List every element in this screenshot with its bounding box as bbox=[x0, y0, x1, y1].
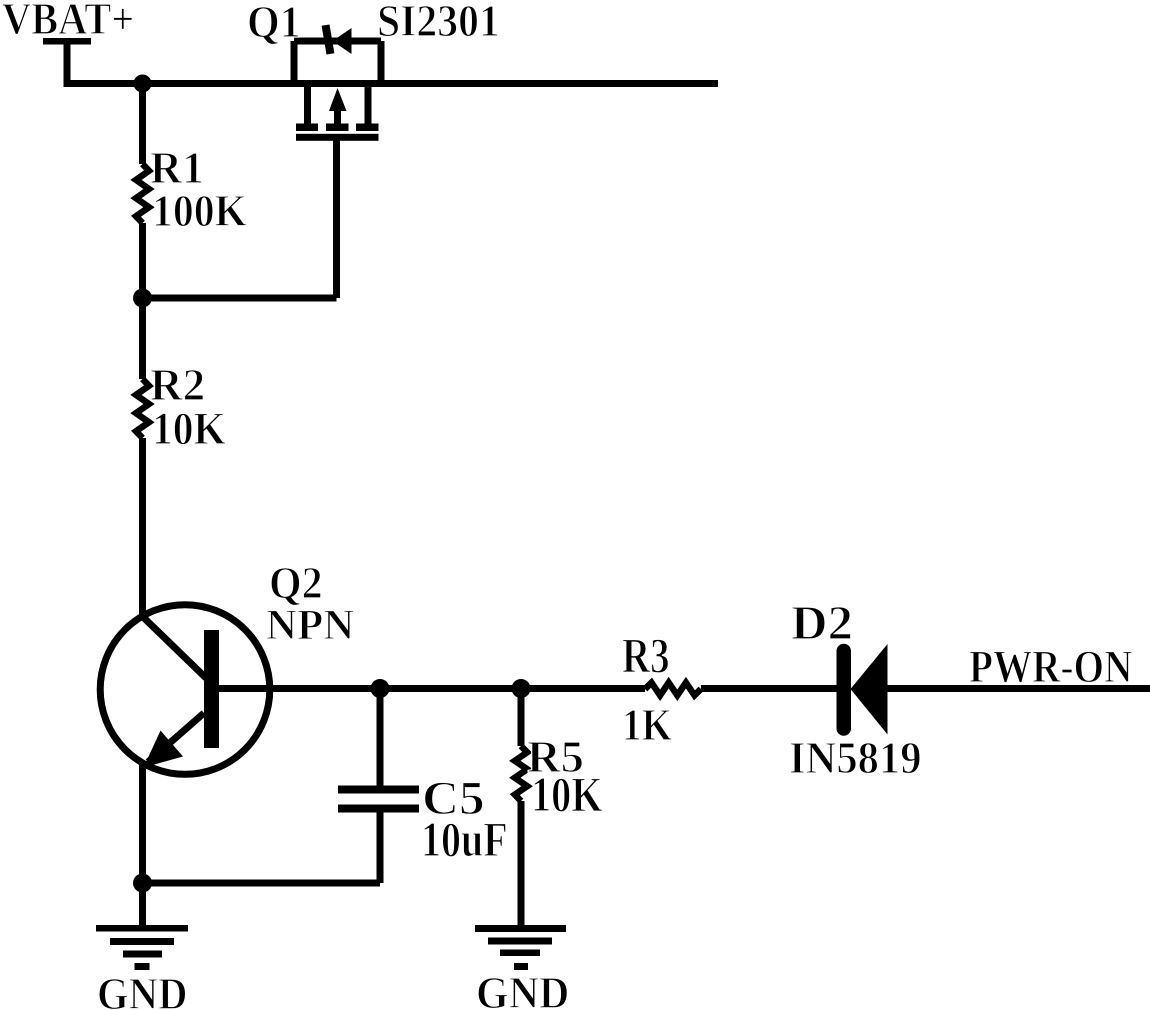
Q2 emitter arrowhead bbox=[144, 731, 184, 768]
svg-text:GND: GND bbox=[97, 969, 188, 1010]
svg-text:Q2: Q2 bbox=[269, 558, 323, 608]
wire C5 top lead bbox=[377, 689, 384, 787]
wire R1 to node A bbox=[139, 223, 146, 298]
wire node A to Q1 gate bbox=[139, 295, 337, 302]
power symbol VBAT+ stem bbox=[64, 44, 71, 84]
svg-text:1K: 1K bbox=[622, 699, 672, 750]
wire Q2 emitter down bbox=[139, 762, 146, 883]
ground left bar3 bbox=[123, 951, 162, 958]
svg-text:10uF: 10uF bbox=[421, 811, 508, 867]
svg-text:VBAT+: VBAT+ bbox=[2, 0, 134, 44]
wire R5 bottom lead bbox=[518, 801, 525, 928]
resistor R2 bbox=[136, 379, 149, 438]
wire node A to R2 bbox=[139, 298, 146, 379]
ground left bar4 bbox=[135, 963, 150, 970]
diode D2 cathode bar bbox=[837, 651, 852, 729]
Q1 body diode loop right bbox=[378, 41, 385, 84]
junction top rail / R1 bbox=[134, 75, 152, 93]
power symbol VBAT+ bar bbox=[43, 38, 91, 45]
resistor R5 bbox=[515, 746, 527, 801]
Q1 body diode loop left bbox=[291, 41, 298, 84]
ground right bar3 bbox=[500, 950, 540, 957]
Q1 substrate arrow bbox=[329, 88, 347, 111]
wire R2 to Q2 collector bbox=[139, 438, 146, 620]
svg-text:10K: 10K bbox=[152, 403, 226, 455]
svg-text:Q1: Q1 bbox=[247, 0, 301, 47]
svg-text:R3: R3 bbox=[622, 627, 670, 683]
svg-text:100K: 100K bbox=[152, 186, 247, 236]
Q1 substrate arrow stem bbox=[334, 108, 341, 124]
svg-text:NPN: NPN bbox=[266, 602, 354, 649]
Q1 channel bar middle bbox=[326, 124, 349, 132]
Q1 body diode triangle bbox=[333, 28, 352, 54]
wire emitter node to ground bbox=[139, 883, 146, 928]
Q1 channel bar source bbox=[296, 124, 318, 132]
node A junction R1/R2/gate bbox=[133, 289, 152, 308]
Q1 channel bar drain bbox=[356, 124, 379, 132]
wire top rail bbox=[64, 80, 719, 87]
Q2 collector diagonal bbox=[142, 616, 206, 678]
junction base/C5 bbox=[371, 679, 390, 698]
capacitor C5 bottom plate bbox=[338, 805, 419, 813]
ground left bar1 bbox=[96, 925, 188, 932]
ground right bar1 bbox=[475, 925, 566, 932]
ground left bar2 bbox=[110, 938, 174, 945]
svg-text:SI2301: SI2301 bbox=[377, 0, 500, 46]
svg-text:10K: 10K bbox=[531, 766, 603, 822]
wire emitter node to C5 bottom bbox=[143, 880, 381, 887]
ground right bar4 bbox=[514, 963, 528, 970]
wire R3 to D2 bbox=[701, 685, 837, 692]
Q1 body diode cathode bar bbox=[322, 25, 335, 55]
Q1 drain stub bbox=[365, 84, 372, 124]
wire Q1 gate vertical bbox=[333, 137, 340, 298]
junction emitter node bbox=[133, 874, 152, 893]
wire C5 bottom lead bbox=[377, 812, 384, 883]
wire Q2 base lead bbox=[219, 685, 645, 692]
diode D2 triangle bbox=[851, 644, 888, 735]
junction base/R5 bbox=[512, 679, 531, 698]
Q2 emitter diagonal bbox=[148, 713, 204, 762]
svg-text:IN5819: IN5819 bbox=[789, 732, 922, 783]
ground right bar2 bbox=[488, 938, 552, 945]
Q1 source stub bbox=[304, 84, 311, 124]
wire D2 to PWR-ON bbox=[885, 685, 1150, 692]
capacitor C5 top plate bbox=[338, 786, 419, 794]
svg-text:D2: D2 bbox=[791, 595, 853, 650]
resistor R3 bbox=[645, 683, 701, 696]
Q2 base bar bbox=[204, 630, 219, 748]
Q1 body diode loop top bbox=[294, 38, 381, 45]
svg-text:PWR-ON: PWR-ON bbox=[969, 641, 1132, 693]
transistor Q1 PMOS gate bar bbox=[296, 134, 379, 141]
resistor R1 bbox=[136, 164, 149, 223]
wire junction to R1 bbox=[139, 84, 146, 165]
svg-text:GND: GND bbox=[476, 968, 569, 1010]
transistor Q2 circle bbox=[100, 605, 270, 775]
wire R5 top lead bbox=[518, 689, 525, 747]
